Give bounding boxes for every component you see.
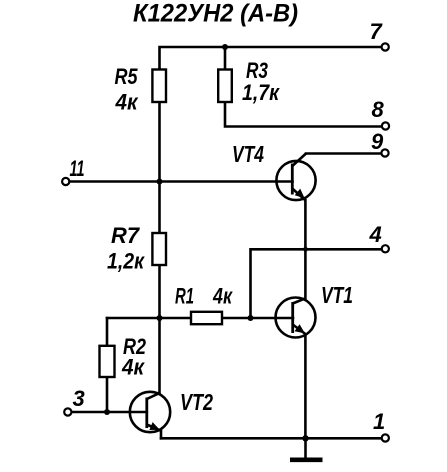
ground (290, 457, 323, 462)
wire input 11 to VT4 base (70, 180, 293, 183)
svg-text:11: 11 (70, 156, 85, 181)
svg-text:3: 3 (73, 386, 85, 411)
node ground junction (302, 435, 308, 441)
wire VT4 emitter / VT1 collector column (304, 200, 307, 299)
terminal pin 8 (382, 122, 389, 129)
transistor VT1 (276, 298, 316, 439)
node R7/row junction (157, 315, 163, 321)
wire top rail to pin 7 (160, 47, 382, 69)
terminal pin 1 (382, 434, 389, 441)
terminal pin 4 (382, 245, 389, 252)
svg-text:VT1: VT1 (321, 282, 353, 308)
node column / pin4 crossing (303, 247, 308, 252)
resistor R3 (218, 70, 232, 103)
svg-text:7: 7 (370, 19, 384, 44)
svg-text:К122УН2 (А-В): К122УН2 (А-В) (133, 0, 298, 28)
wire ground stub (304, 438, 307, 457)
terminal pin 7 (382, 43, 389, 50)
wire R3 top stub (224, 47, 227, 69)
svg-text:1,7к: 1,7к (242, 80, 281, 105)
terminal pin 3 (64, 408, 71, 415)
svg-text:VT2: VT2 (180, 389, 213, 415)
terminal pin 9 (381, 149, 388, 156)
svg-text:R7: R7 (111, 223, 141, 248)
svg-text:1: 1 (373, 409, 385, 434)
wire left column R5-R7-VT2 collector (158, 69, 161, 393)
node top rail junction (222, 44, 228, 50)
svg-text:VT4: VT4 (232, 141, 264, 167)
terminal pin 11 (62, 178, 69, 185)
wire pin 4 branch (251, 249, 382, 318)
svg-text:9: 9 (371, 129, 384, 154)
resistor R7 (152, 233, 166, 265)
svg-text:4к: 4к (121, 355, 146, 380)
resistor R5 (152, 70, 166, 103)
node R2/pin3 junction (104, 409, 110, 415)
transistor VT4 (276, 154, 315, 201)
transistor VT2 (130, 392, 170, 432)
resistor R1 (191, 312, 222, 324)
node 11/R5/R7 junction (157, 179, 163, 185)
svg-text:R5: R5 (115, 64, 139, 89)
wire R2 branch down to VT2 base (106, 318, 109, 412)
svg-text:4к: 4к (212, 284, 233, 309)
wire input 3 to VT2 base (72, 411, 147, 414)
wire VT4 collector to pin 9 (306, 152, 381, 155)
wire ground rail to pin 1 (161, 437, 381, 440)
resistor R2 (100, 346, 115, 377)
wire base row y=318 (R7 foot to VT1 base) (107, 317, 293, 320)
svg-text:R1: R1 (175, 284, 194, 309)
node R1/VT1-base/pin4 junction (248, 315, 254, 321)
wire VT2 emitter down to ground rail (160, 431, 163, 439)
svg-text:1,2к: 1,2к (107, 249, 146, 274)
wire R3 bottom to pin 8 (225, 102, 381, 127)
svg-text:4к: 4к (115, 90, 140, 115)
svg-text:4: 4 (369, 222, 382, 247)
svg-text:8: 8 (372, 97, 385, 122)
